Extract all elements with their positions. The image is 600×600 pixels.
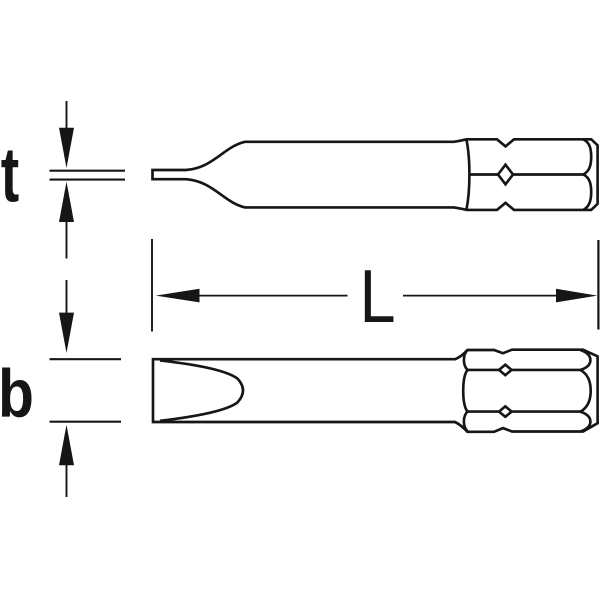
- svg-text:b: b: [0, 356, 34, 432]
- svg-text:L: L: [360, 254, 396, 337]
- svg-text:t: t: [1, 132, 19, 218]
